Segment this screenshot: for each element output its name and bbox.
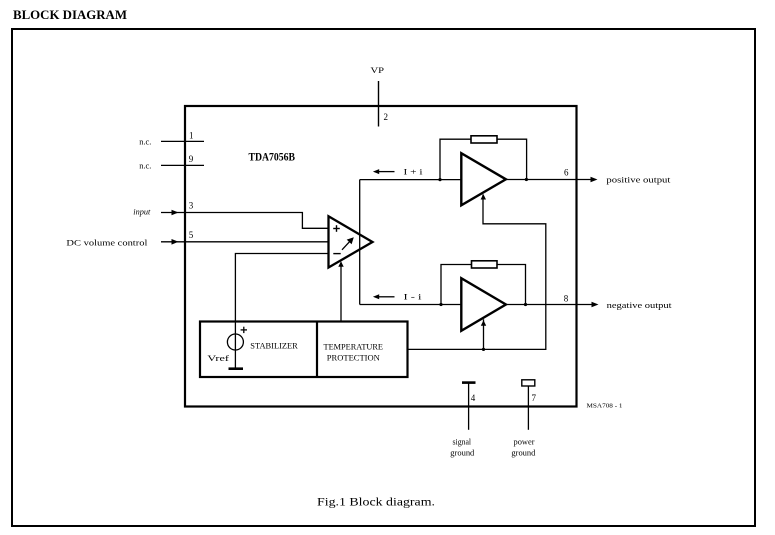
svg-text:VP: VP (371, 65, 385, 75)
svg-text:Vref: Vref (207, 354, 229, 363)
svg-text:9: 9 (189, 154, 194, 164)
svg-text:Fig.1 Block diagram.: Fig.1 Block diagram. (317, 495, 435, 509)
svg-text:input: input (133, 207, 151, 217)
svg-text:ground: ground (450, 447, 475, 457)
svg-text:STABILIZER: STABILIZER (250, 341, 298, 350)
svg-text:I + i: I + i (404, 167, 424, 177)
svg-text:n.c.: n.c. (139, 136, 151, 146)
svg-text:PROTECTION: PROTECTION (327, 354, 380, 363)
svg-text:TEMPERATURE: TEMPERATURE (324, 342, 384, 351)
svg-text:positive output: positive output (606, 175, 671, 185)
svg-text:power: power (514, 436, 535, 446)
svg-text:7: 7 (532, 393, 537, 403)
svg-text:2: 2 (384, 112, 389, 122)
svg-text:ground: ground (511, 447, 536, 457)
svg-text:4: 4 (471, 393, 476, 403)
svg-text:n.c.: n.c. (139, 160, 151, 170)
svg-text:8: 8 (564, 293, 569, 303)
svg-text:1: 1 (189, 130, 194, 140)
svg-text:TDA7056B: TDA7056B (249, 152, 296, 164)
svg-text:I - i: I - i (404, 292, 423, 302)
svg-text:3: 3 (189, 201, 194, 211)
svg-text:DC volume control: DC volume control (66, 237, 148, 247)
svg-text:signal: signal (453, 436, 472, 446)
svg-text:6: 6 (564, 168, 569, 178)
svg-text:5: 5 (189, 230, 194, 240)
svg-text:MSA708 - 1: MSA708 - 1 (587, 403, 623, 410)
svg-text:BLOCK DIAGRAM: BLOCK DIAGRAM (13, 7, 127, 22)
svg-text:negative output: negative output (607, 300, 673, 310)
